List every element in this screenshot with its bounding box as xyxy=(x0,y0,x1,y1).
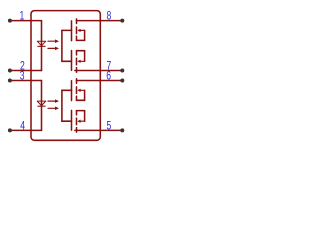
transistor Q4 channel drain dash xyxy=(76,128,78,133)
gate bracket unit A xyxy=(61,30,63,61)
LED D2 light arrow lower xyxy=(48,107,59,111)
LED D1 stem xyxy=(41,21,43,71)
gate stub Q4 xyxy=(62,120,72,122)
transistor Q3 body arrow xyxy=(77,89,84,92)
LED D2 light arrow upper xyxy=(48,99,59,103)
wire pin 5 drain rail xyxy=(75,129,122,131)
LED D2 triangle xyxy=(37,101,46,106)
wire pin 4 xyxy=(10,129,42,131)
gate stub Q3 xyxy=(62,89,72,91)
node pin 5 endpoint xyxy=(120,128,124,132)
svg-text:8: 8 xyxy=(107,11,112,23)
node pin 8 endpoint xyxy=(120,19,124,23)
svg-text:6: 6 xyxy=(106,70,111,82)
transistor Q3 channel body dash xyxy=(76,87,78,94)
transistor Q4 body wire xyxy=(84,111,86,122)
transistor Q1 body wire xyxy=(84,30,86,40)
svg-text:1: 1 xyxy=(20,11,25,23)
transistor Q2 source bar xyxy=(77,50,85,52)
transistor Q1 channel body dash xyxy=(76,27,78,34)
transistor Q3 source bar xyxy=(77,99,85,101)
transistor Q3 channel drain dash xyxy=(76,79,78,84)
LED D1 light arrow upper xyxy=(48,39,59,43)
LED D2 stem xyxy=(41,81,43,131)
transistor Q1 channel drain dash xyxy=(76,19,78,24)
wire pin 6 drain rail xyxy=(77,80,123,82)
transistor Q4 gate plate xyxy=(71,110,73,130)
transistor Q1 channel source dash xyxy=(76,36,78,40)
transistor Q4 source bar xyxy=(77,110,85,112)
gate stub Q2 xyxy=(62,60,72,62)
node pin 4 endpoint xyxy=(8,128,12,132)
node pin 6 endpoint xyxy=(120,79,124,83)
transistor Q2 channel body dash xyxy=(76,58,78,64)
wire pin 7 drain rail xyxy=(75,70,122,72)
node pin 3 endpoint xyxy=(8,79,12,83)
LED D1 triangle xyxy=(37,41,46,46)
node pin 7 endpoint xyxy=(120,69,124,73)
transistor Q3 channel source dash xyxy=(76,96,78,100)
svg-text:5: 5 xyxy=(107,120,112,132)
transistor Q1 source bar xyxy=(77,39,85,41)
transistor Q2 gate plate xyxy=(71,51,73,71)
transistor Q2 channel drain dash xyxy=(76,68,78,73)
transistor Q3 body wire xyxy=(84,90,86,100)
transistor Q3 gate plate xyxy=(71,81,73,101)
wire pin 8 drain rail xyxy=(77,20,123,22)
transistor Q1 gate plate xyxy=(71,21,73,41)
wire pin 3 xyxy=(10,80,42,82)
gate bracket unit B xyxy=(61,90,63,121)
node pin 1 endpoint xyxy=(8,19,12,23)
gate stub Q1 xyxy=(62,29,72,31)
LED D1 light arrow lower xyxy=(48,47,59,51)
LED D1 cathode bar xyxy=(38,45,45,47)
LED D2 cathode bar xyxy=(38,105,45,107)
node pin 2 endpoint xyxy=(8,69,12,73)
transistor Q4 body arrow xyxy=(77,120,84,123)
svg-text:4: 4 xyxy=(20,120,25,132)
transistor Q2 body arrow xyxy=(77,60,84,63)
wire pin 1 xyxy=(10,20,42,22)
transistor Q2 body wire xyxy=(84,51,86,62)
transistor Q4 channel source dash xyxy=(76,111,78,115)
svg-text:3: 3 xyxy=(20,70,25,82)
transistor Q4 channel body dash xyxy=(76,118,78,125)
package body U1 outline xyxy=(31,11,100,141)
transistor Q2 channel source dash xyxy=(76,51,78,55)
transistor Q1 body arrow xyxy=(77,29,84,32)
wire pin 2 xyxy=(10,70,42,72)
